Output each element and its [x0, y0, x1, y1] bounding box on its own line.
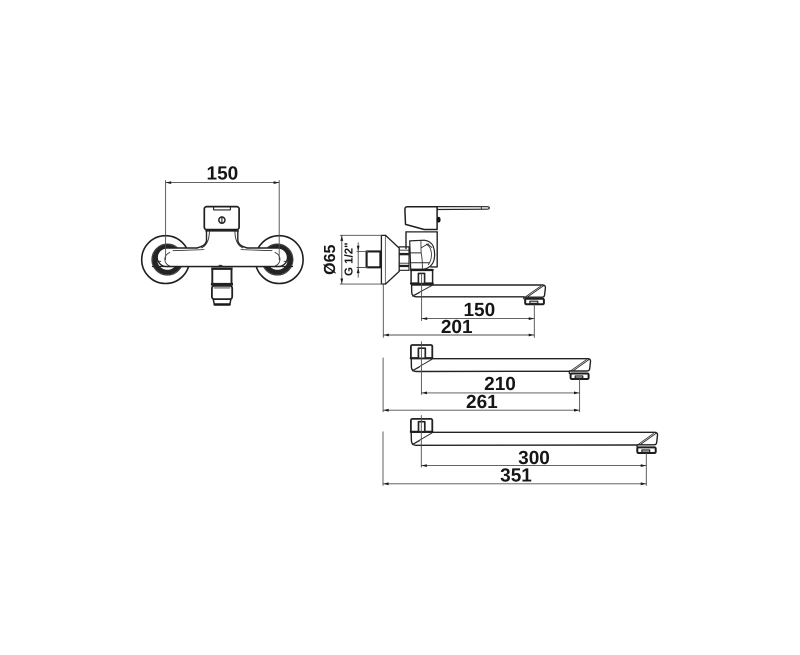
body bottom edge line [153, 266, 293, 268]
dim 261: value label [466, 392, 498, 413]
outlet flange band top [211, 268, 232, 270]
mount set screw [418, 273, 424, 283]
dim 351: dimension line [383, 482, 646, 485]
left wall flange circle [142, 236, 190, 284]
dim G 1/2: extension lines [357, 251, 368, 267]
set screw 210 [418, 348, 425, 358]
set screw 300 [419, 422, 425, 432]
mount axis extension line 300 [420, 416, 422, 468]
dim 150 front: value label [207, 163, 239, 184]
swivel ball joint [410, 240, 435, 269]
outlet axis extension line 300 [645, 453, 647, 485]
aerator 150 spout [525, 299, 544, 305]
outlet axis extension line [533, 305, 535, 338]
dim 201: value label [441, 317, 473, 338]
dim G 1/2: value label [343, 242, 355, 276]
svg-text:261: 261 [466, 392, 498, 413]
dim 210: dimension line [421, 392, 579, 395]
dim Ø65: value label [322, 244, 339, 274]
valve body [406, 232, 437, 267]
dim Ø65: extension ticks [340, 235, 381, 284]
body arm (horizontal pill) [157, 248, 288, 267]
aerator 210 spout [571, 374, 589, 380]
left knurled nut ring [152, 244, 183, 275]
outlet pipe sides [212, 270, 231, 283]
mount block 210 [411, 345, 432, 359]
threaded nipple [399, 247, 409, 270]
mount axis extension line [421, 273, 423, 321]
aerator foot [213, 299, 231, 304]
dim 210: value label [484, 374, 516, 395]
svg-text:G 1/2": G 1/2" [343, 242, 355, 276]
flange cone [386, 235, 400, 284]
right knurled nut ring [262, 244, 293, 275]
dim 261: dimension line [383, 409, 579, 412]
cartridge neck [197, 231, 247, 265]
dim 150 side: dimension line [422, 317, 535, 320]
spout tube 300 [411, 432, 657, 447]
dim 150 front: extension lines [166, 181, 280, 260]
dim 351: value label [500, 465, 532, 486]
mount axis extension line 210 [420, 342, 422, 395]
mount block 300 [411, 419, 432, 432]
dim G 1/2: dimension line [357, 243, 360, 277]
head cap [405, 207, 437, 230]
dim 150 side: value label [463, 300, 495, 321]
spout mount block [411, 270, 433, 284]
outlet axis extension line 210 [579, 379, 581, 412]
wall face extension line 261 [382, 358, 384, 412]
G 1/2 inlet square [367, 251, 381, 267]
dim 300: value label [518, 448, 550, 469]
aerator 300 spout [637, 447, 655, 453]
svg-text:150: 150 [207, 163, 239, 184]
right wall flange circle [255, 236, 303, 284]
wall flange rim [381, 235, 385, 284]
head/body joint line [406, 231, 437, 233]
side knob [437, 217, 441, 223]
dim 150 front: dimension line [166, 181, 280, 184]
svg-text:Ø65: Ø65 [322, 244, 339, 274]
aerator shell [212, 286, 232, 299]
wall face extension line [382, 285, 384, 338]
wall face extension line 351 [382, 432, 384, 486]
dim 201: dimension line [383, 334, 534, 337]
svg-text:351: 351 [500, 465, 532, 486]
dim 300: dimension line [421, 464, 646, 467]
svg-text:201: 201 [441, 317, 473, 338]
spout tube 210 [411, 359, 590, 374]
dim Ø65: dimension line [340, 235, 343, 284]
cartridge head box [204, 207, 239, 230]
head screw [219, 217, 225, 224]
lever handle [437, 207, 489, 210]
outlet nut band [211, 283, 233, 286]
spout tube 150 [412, 285, 546, 299]
